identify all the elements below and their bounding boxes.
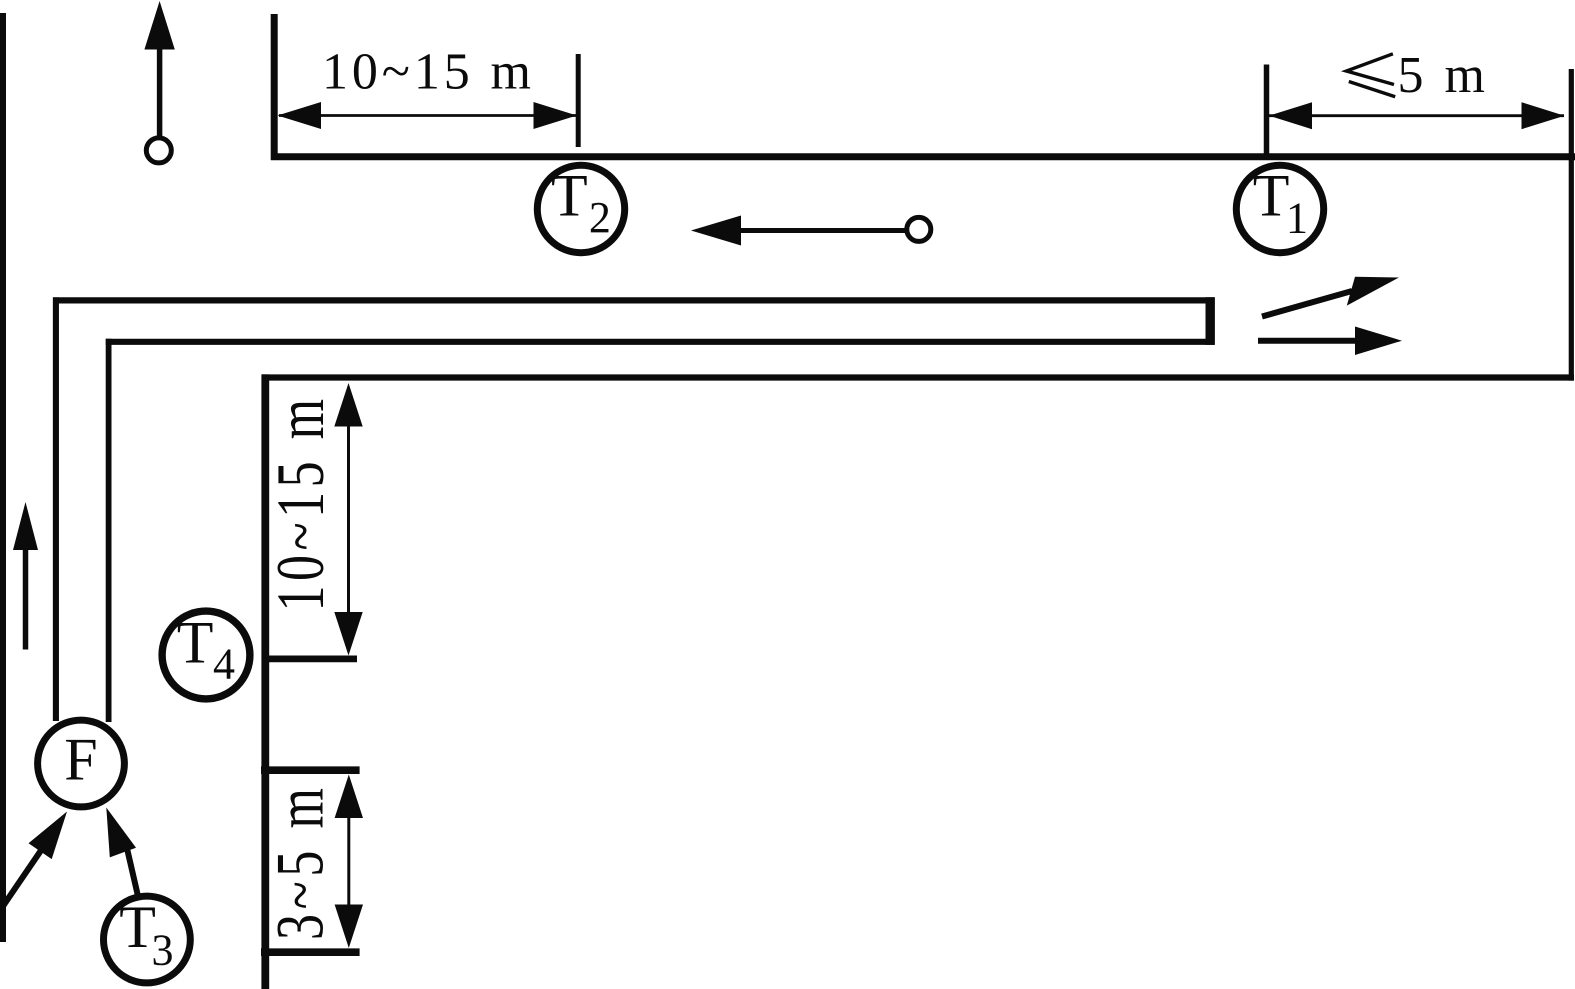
svg-text:T: T — [177, 609, 214, 675]
wire tick below T4 dim — [262, 656, 357, 663]
wire tick lower of 3~5 m — [261, 948, 360, 956]
node sensor T4 — [162, 609, 250, 699]
svg-text:5 m: 5 m — [1398, 47, 1489, 104]
wire bottom tunnel wall — [262, 374, 1574, 380]
svg-text:1: 1 — [1286, 194, 1308, 243]
wire top tunnel wall — [271, 153, 1575, 160]
node sensor T1 — [1236, 163, 1323, 253]
node duct outlet arrow horizontal — [1258, 327, 1402, 356]
svg-text:T: T — [551, 163, 588, 229]
wire lower roadway left wall — [261, 374, 269, 989]
node dimension 10~15 m vertical — [334, 383, 362, 656]
node return airflow arrow with circle end — [691, 216, 931, 246]
node up-arrow top-left airflow — [144, 1, 174, 163]
svg-text:10~15 m: 10~15 m — [322, 44, 535, 101]
svg-text:F: F — [64, 727, 97, 793]
node label <=5 m — [1346, 47, 1489, 104]
svg-text:3~5 m: 3~5 m — [263, 783, 338, 940]
node dimension 10~15 m horizontal — [278, 102, 577, 129]
wire tick at T2 position — [576, 54, 581, 147]
node intake arrow from T3 — [106, 808, 137, 895]
node dimension 3~5 m vertical — [335, 775, 363, 949]
wire tick near T1 — [1264, 65, 1270, 155]
node dimension <=5 m — [1269, 102, 1565, 129]
svg-text:T: T — [119, 894, 156, 960]
wire left end tick of top wall — [271, 14, 278, 160]
svg-text:4: 4 — [213, 639, 235, 688]
node sensor T2 — [537, 163, 624, 253]
svg-text:10~15 m: 10~15 m — [264, 394, 339, 611]
node intake arrow from lower-left — [1, 812, 67, 910]
node duct outlet arrow slanted — [1262, 277, 1399, 317]
wire right wall — [1569, 69, 1574, 381]
wire tick upper of 3~5 m — [261, 766, 360, 774]
node fan F — [38, 720, 125, 807]
svg-text:T: T — [1253, 163, 1290, 229]
svg-text:2: 2 — [589, 193, 611, 242]
node sensor T3 — [103, 894, 190, 983]
svg-text:3: 3 — [152, 925, 174, 974]
wire left roadway wall — [0, 13, 6, 942]
node ventilation duct — [53, 297, 1215, 722]
node up airflow arrow left middle — [13, 502, 38, 650]
